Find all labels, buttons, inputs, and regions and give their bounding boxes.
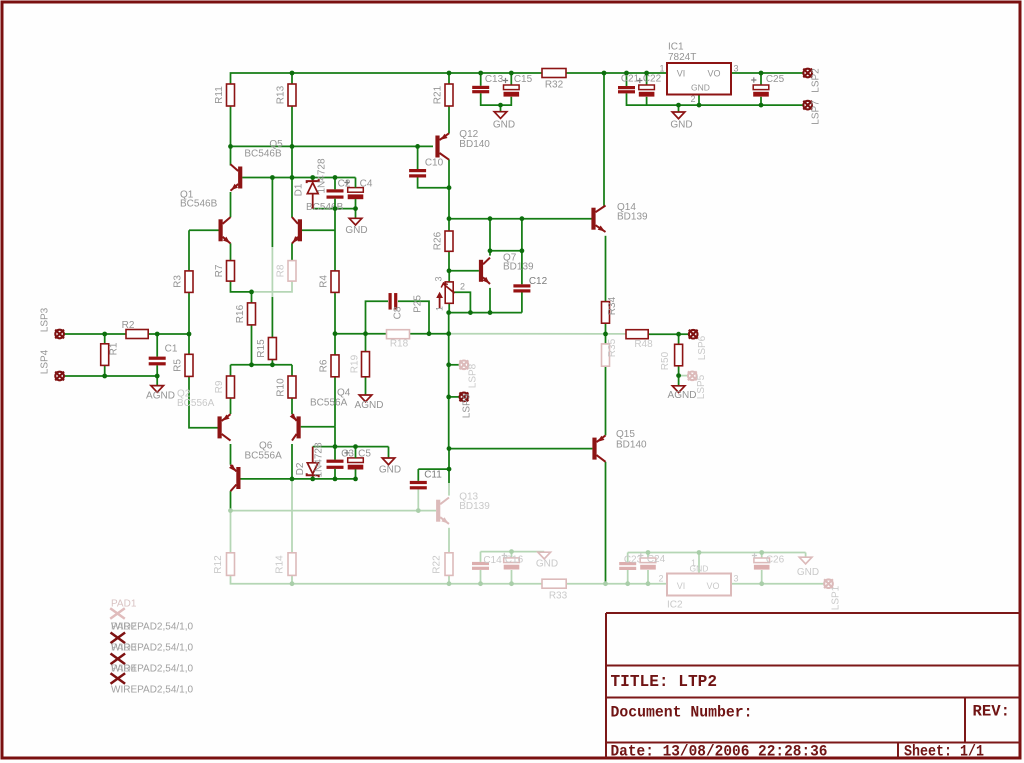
svg-text:VI: VI xyxy=(677,581,686,591)
wire Q4 base node to C3 bus xyxy=(334,427,336,447)
svg-text:LSP8: LSP8 xyxy=(468,363,479,388)
wire C14 top stub faded xyxy=(480,552,482,562)
svg-text:C8: C8 xyxy=(393,306,404,319)
svg-text:GND: GND xyxy=(691,83,710,93)
resistor R8 xyxy=(288,261,296,282)
svg-text:LSP3: LSP3 xyxy=(40,307,51,332)
junction xyxy=(447,446,452,451)
svg-text:1N4728: 1N4728 xyxy=(317,158,328,193)
svg-text:IC1: IC1 xyxy=(668,42,684,53)
junction xyxy=(446,331,451,336)
junction faded xyxy=(228,508,233,513)
wire R26 bottom to node xyxy=(448,251,450,270)
resistor R5 xyxy=(185,354,193,376)
svg-text:2: 2 xyxy=(460,282,465,292)
wire R6 bottom to Q4 base xyxy=(334,377,336,427)
junction xyxy=(290,175,295,180)
capacitor C14 xyxy=(472,562,489,570)
junction xyxy=(155,332,160,337)
svg-text:GND: GND xyxy=(379,465,401,476)
wire V+ top rail left of R32 xyxy=(231,73,543,84)
junction xyxy=(187,332,192,337)
svg-text:R35: R35 xyxy=(607,338,618,357)
svg-text:IC2: IC2 xyxy=(667,600,683,611)
junction xyxy=(333,175,338,180)
wire C5 top stub xyxy=(355,447,357,458)
wire Q5 base bus to D1/C2/C4 xyxy=(242,177,355,179)
junction xyxy=(676,373,681,378)
junction xyxy=(488,216,493,221)
wire R9 bottom to Q2 emitter xyxy=(230,398,232,414)
svg-text:R2: R2 xyxy=(122,320,135,331)
svg-text:C26: C26 xyxy=(766,555,785,566)
svg-text:BC556A: BC556A xyxy=(310,398,348,409)
junction xyxy=(447,268,452,273)
svg-text:R13: R13 xyxy=(276,85,287,104)
wire Q4 collector down xyxy=(291,444,293,479)
svg-text:VO: VO xyxy=(707,69,720,79)
wire tail bus R9/R10 xyxy=(231,364,293,366)
svg-text:3: 3 xyxy=(434,276,444,281)
transistor Q5 BC546B xyxy=(231,164,243,190)
svg-text:BC546B: BC546B xyxy=(180,199,218,210)
svg-text:R7: R7 xyxy=(214,264,225,277)
capacitor C23 xyxy=(619,562,636,570)
capacitor C3 xyxy=(327,460,344,469)
title block frame xyxy=(606,613,1021,758)
wirepad PAD1 xyxy=(110,608,125,619)
junction faded xyxy=(603,581,608,586)
wire C26 bottom stub faded xyxy=(761,570,763,584)
svg-text:BC546B: BC546B xyxy=(244,149,282,160)
wire IC2 VO to LSP1 faded xyxy=(731,583,824,585)
wire feedback bus left part xyxy=(335,333,449,335)
wire Q1 emitter to R7 xyxy=(230,243,232,260)
capacitor C16 electrolytic xyxy=(502,553,520,570)
svg-text:1: 1 xyxy=(659,64,664,74)
svg-text:R34: R34 xyxy=(607,296,618,315)
svg-text:VI: VI xyxy=(677,69,686,79)
wire R11 bottom to Q5 collector xyxy=(230,106,232,166)
wire R21 top stub xyxy=(448,73,450,84)
svg-text:WIREPAD2,54/1,0: WIREPAD2,54/1,0 xyxy=(111,622,194,633)
junction xyxy=(468,310,473,315)
svg-text:R50: R50 xyxy=(660,351,671,370)
svg-text:C15: C15 xyxy=(514,74,533,85)
wire P25 wiper pin2 xyxy=(453,292,470,312)
wire R10 bottom to Q4 emitter xyxy=(291,398,293,414)
junction xyxy=(509,71,514,76)
wire Q12 collector down to R26 xyxy=(448,160,450,232)
svg-text:AGND: AGND xyxy=(668,390,697,401)
wire C22 bottom stub xyxy=(646,97,648,105)
junction faded xyxy=(478,581,483,586)
wire R5 bottom to Q2 base xyxy=(189,376,218,427)
wire LSP8 stub xyxy=(449,364,460,366)
wire C16 top stub faded xyxy=(511,552,513,558)
wire R34 to R35 xyxy=(605,323,607,344)
svg-text:R10: R10 xyxy=(276,378,287,397)
wire C1 bottom to AGND xyxy=(156,365,158,385)
analog ground AGND right xyxy=(672,386,685,393)
junction xyxy=(520,248,525,253)
ground GND mid xyxy=(349,218,362,225)
svg-text:3: 3 xyxy=(734,574,739,584)
junction faded xyxy=(290,581,295,586)
svg-text:2: 2 xyxy=(690,94,695,104)
junction xyxy=(155,374,160,379)
junction xyxy=(353,206,358,211)
pad LSP7 xyxy=(803,101,812,110)
wire Q7 collector up xyxy=(489,219,491,256)
svg-text:REV:: REV: xyxy=(973,703,1011,721)
wire C24 bottom stub faded xyxy=(647,570,649,584)
wire Q13 emitter to R22 faded xyxy=(448,528,450,553)
wire R50 bottom stub xyxy=(678,366,680,376)
transistor Q3 BC546B xyxy=(292,217,302,243)
junction xyxy=(447,467,452,472)
svg-text:1: 1 xyxy=(435,306,445,311)
wire output node to R48 faded xyxy=(606,333,627,335)
resistor R19 xyxy=(362,352,370,377)
voltage regulator IC2 7924T faded xyxy=(667,574,731,596)
pad LSP4 xyxy=(55,372,64,381)
wire C26 top stub faded xyxy=(761,553,763,559)
svg-text:C14: C14 xyxy=(483,555,502,566)
wire Q15 base bus xyxy=(449,448,592,450)
junction xyxy=(290,144,295,149)
resistor R7 xyxy=(227,261,235,282)
wire C4 bottom stub xyxy=(355,199,357,209)
junction xyxy=(603,332,608,337)
junction xyxy=(697,103,702,108)
capacitor C8 xyxy=(389,293,398,310)
junction xyxy=(102,374,107,379)
svg-text:R1: R1 xyxy=(109,342,120,355)
junction xyxy=(488,310,493,315)
junction xyxy=(415,144,420,149)
svg-text:GND: GND xyxy=(493,120,515,131)
svg-text:R16: R16 xyxy=(235,304,246,323)
svg-text:C21: C21 xyxy=(621,74,640,85)
capacitor C2 xyxy=(327,189,344,198)
resistor R2 xyxy=(126,330,148,339)
wire Q14 emitter to R34 xyxy=(605,236,607,302)
capacitor C26 electrolytic xyxy=(752,553,770,570)
wire R9 top stub xyxy=(230,365,232,376)
svg-text:LSP4: LSP4 xyxy=(40,349,51,374)
svg-text:R12: R12 xyxy=(213,555,224,574)
wire Q15 collector to bottom rail xyxy=(605,462,607,584)
resistor R6 xyxy=(331,355,339,377)
junction xyxy=(353,477,358,482)
junction faded xyxy=(416,508,421,513)
svg-text:R9: R9 xyxy=(214,380,225,393)
svg-text:Document Number:: Document Number: xyxy=(611,704,753,722)
capacitor C11 xyxy=(410,481,427,490)
ground GND bottom right faded xyxy=(799,557,812,564)
wire V+ rail down to Q14 collector xyxy=(603,73,605,206)
wire AGND stub right xyxy=(678,376,680,386)
svg-text:D2: D2 xyxy=(295,462,306,475)
wire C2 bottom stub xyxy=(334,199,336,209)
junction faded xyxy=(646,550,651,555)
transistor Q1 BC546B xyxy=(219,217,231,243)
svg-text:R26: R26 xyxy=(433,231,444,250)
wire R7 emitter to bus xyxy=(231,281,252,292)
junction faded xyxy=(509,549,514,554)
junction xyxy=(333,206,338,211)
resistor R10 xyxy=(288,376,296,398)
transistor Q7 BD139 xyxy=(479,258,490,284)
pad LSP8 xyxy=(460,360,469,369)
wire GND stub under C13/C15 xyxy=(500,105,502,112)
transistor Q2 BC556A xyxy=(218,414,231,440)
wire to Q13 collector faded xyxy=(448,483,450,496)
svg-text:R8: R8 xyxy=(276,264,287,277)
wire C13/C15 bottoms to GND xyxy=(481,93,512,105)
wire LSP9 stub xyxy=(449,396,460,398)
junction faded xyxy=(759,550,764,555)
svg-text:GND: GND xyxy=(670,120,692,131)
svg-text:LSP9: LSP9 xyxy=(462,393,473,418)
svg-text:LSP7: LSP7 xyxy=(811,100,822,125)
svg-text:GND: GND xyxy=(536,559,558,570)
junction xyxy=(249,362,254,367)
wire Q13 base bus faded xyxy=(231,510,437,512)
capacitor C15 electrolytic xyxy=(503,78,519,97)
svg-text:C13: C13 xyxy=(485,74,504,85)
ground GND under IC1 xyxy=(672,112,685,119)
junction xyxy=(488,248,493,253)
wire P25 pin3 stub xyxy=(448,271,450,282)
wire C22 top stub xyxy=(646,73,648,85)
wire GND stub lower mid xyxy=(388,447,390,458)
junction xyxy=(310,477,315,482)
svg-text:R19: R19 xyxy=(350,354,361,373)
wire faded section of R15 column xyxy=(271,247,273,297)
wire C21 top stub xyxy=(626,73,628,86)
svg-text:C16: C16 xyxy=(505,555,524,566)
junction xyxy=(520,216,525,221)
wire R19 top stub xyxy=(365,334,367,352)
junction faded xyxy=(509,581,514,586)
svg-text:WIREPAD2,54/1,0: WIREPAD2,54/1,0 xyxy=(111,685,194,696)
wire R10 top stub xyxy=(291,365,293,376)
svg-text:R32: R32 xyxy=(545,80,564,91)
svg-text:AGND: AGND xyxy=(146,391,175,402)
wire C3 top stub xyxy=(334,447,336,460)
wire P25 pin1 stub xyxy=(448,303,450,312)
resistor R1 xyxy=(101,344,109,366)
svg-text:Date: 13/08/2006 22:28:36: Date: 13/08/2006 22:28:36 xyxy=(611,743,828,761)
pad LSP1 xyxy=(824,579,833,588)
svg-text:BD140: BD140 xyxy=(616,440,647,451)
svg-text:LSP2: LSP2 xyxy=(811,68,822,93)
wire IC1 VO to C25 and LSP2 xyxy=(731,72,803,74)
capacitor C12 xyxy=(513,284,530,292)
junction faded xyxy=(447,581,452,586)
svg-text:C25: C25 xyxy=(766,74,785,85)
wire node B1 to Q12 base xyxy=(231,145,434,147)
svg-text:2: 2 xyxy=(658,574,663,584)
wire R35 to Q15 emitter xyxy=(605,366,607,435)
capacitor C13 xyxy=(472,86,489,93)
svg-text:C5: C5 xyxy=(358,449,371,460)
wire C10 top stub xyxy=(417,146,419,169)
svg-text:WIREPAD2,54/1,0: WIREPAD2,54/1,0 xyxy=(111,643,194,654)
wire LSP6 stub xyxy=(679,333,689,335)
capacitor C21 xyxy=(618,86,635,93)
wire feedback bus faded middle xyxy=(449,333,606,335)
pad LSP6 xyxy=(689,330,698,339)
svg-text:R21: R21 xyxy=(433,85,444,104)
svg-text:BD139: BD139 xyxy=(459,501,490,512)
pad LSP3 xyxy=(55,330,64,339)
resistor R35 xyxy=(602,344,610,366)
svg-text:GND: GND xyxy=(345,225,367,236)
junction xyxy=(644,71,649,76)
wire R16 bottom to tail bus xyxy=(251,325,253,365)
wire R19 bottom to AGND xyxy=(365,377,367,395)
wire R16 top stub xyxy=(251,292,253,303)
wire Q1 base down to R3 xyxy=(188,230,190,271)
zener diode D1 1N4728 xyxy=(307,178,319,209)
wire Q4 base xyxy=(301,426,335,428)
analog ground AGND under C1 xyxy=(151,386,164,393)
junction xyxy=(249,290,254,295)
wire GND stub bottom right faded xyxy=(805,553,807,558)
transistor Q4 BC556A xyxy=(290,414,301,441)
wire C5 bottom stub xyxy=(355,469,357,479)
wire R22 bottom stub faded xyxy=(448,575,450,583)
wire Q7 emitter down xyxy=(489,288,491,313)
svg-text:P25: P25 xyxy=(413,295,424,313)
wire R2 to input node xyxy=(148,333,189,335)
junction xyxy=(363,331,368,336)
wire down toward Q13 xyxy=(448,469,450,483)
wire R50 top stub xyxy=(678,334,680,344)
resistor R12 xyxy=(227,553,235,576)
wire bottom rail to IC2 VI faded xyxy=(566,583,667,585)
wire C12 bottom leg xyxy=(521,293,523,313)
junction xyxy=(498,103,503,108)
svg-text:WIREPAD2,54/1,0: WIREPAD2,54/1,0 xyxy=(111,664,194,675)
wire R13 top stub xyxy=(291,73,293,84)
wire R13 bottom down to Q3 collector xyxy=(291,106,293,218)
svg-text:R48: R48 xyxy=(634,339,653,350)
wire C2 top stub xyxy=(334,178,336,190)
svg-text:Q15: Q15 xyxy=(616,429,635,440)
transistor Q13 BD139 xyxy=(436,498,449,524)
svg-text:1N4728: 1N4728 xyxy=(314,442,325,477)
junction xyxy=(447,71,452,76)
svg-text:R22: R22 xyxy=(432,555,443,574)
svg-text:C4: C4 xyxy=(360,179,373,190)
resistor R50 xyxy=(675,344,683,366)
resistor R21 xyxy=(445,84,453,106)
svg-text:BD140: BD140 xyxy=(459,139,490,150)
wire R48 to LSP6 node xyxy=(648,333,678,335)
wirepad PAD4 xyxy=(111,673,126,684)
resistor R22 xyxy=(445,553,453,576)
junction xyxy=(270,362,275,367)
svg-text:R14: R14 xyxy=(275,555,286,574)
resistor R48 xyxy=(626,330,648,339)
junction xyxy=(446,362,451,367)
wire stub xyxy=(605,72,607,74)
junction xyxy=(759,103,764,108)
junction xyxy=(676,103,681,108)
junction xyxy=(333,477,338,482)
capacitor C25 electrolytic xyxy=(751,77,769,96)
wire bus to R8 faded xyxy=(252,281,293,292)
wire GND stub mid xyxy=(355,209,357,219)
junction xyxy=(478,71,483,76)
wire C10 bottom to Q12 collector node xyxy=(418,178,449,188)
junction xyxy=(624,71,629,76)
wire C23 top stub faded xyxy=(627,553,629,563)
wire Q3 base xyxy=(302,229,335,231)
wire Q7 emitter bus xyxy=(449,312,522,314)
wire bottom rail left of R33 faded xyxy=(231,575,543,583)
junction faded xyxy=(625,581,630,586)
ground GND lower mid xyxy=(382,458,395,465)
wire Q1 base xyxy=(189,229,219,231)
resistor R32 xyxy=(542,69,566,78)
junction xyxy=(310,175,315,180)
wire Q6 collector to R12 faded xyxy=(230,511,232,553)
resistor R14 xyxy=(288,553,296,576)
wire Q3 base node down to R4 xyxy=(334,209,336,271)
junction xyxy=(447,216,452,221)
resistor R34 xyxy=(602,302,610,324)
svg-text:VO: VO xyxy=(706,581,719,591)
transistor Q15 BD140 xyxy=(592,435,605,461)
wire Q3 emitter to R8 xyxy=(291,243,293,260)
capacitor C5 electrolytic xyxy=(344,450,363,469)
wire down to R15 top xyxy=(271,297,273,338)
svg-text:R15: R15 xyxy=(256,339,267,358)
resistor R26 xyxy=(445,231,453,251)
wire output feedback column xyxy=(448,313,450,449)
resistor R16 xyxy=(248,303,256,325)
svg-text:GND: GND xyxy=(797,567,819,578)
resistor R13 xyxy=(288,84,296,106)
wire Q7 collector to C12 link xyxy=(490,250,522,252)
svg-text:C24: C24 xyxy=(647,554,666,565)
junction xyxy=(446,310,451,315)
svg-text:C10: C10 xyxy=(425,158,444,169)
junction xyxy=(353,444,358,449)
resistor R15 xyxy=(268,338,276,360)
svg-text:R6: R6 xyxy=(319,359,330,372)
svg-text:R5: R5 xyxy=(173,359,184,372)
junction xyxy=(447,185,452,190)
svg-text:TITLE: LTP2: TITLE: LTP2 xyxy=(611,673,718,692)
wire Q6 base bus to D2/C3/C5 xyxy=(241,478,356,480)
svg-text:3: 3 xyxy=(734,64,739,74)
junction xyxy=(759,71,764,76)
wire C11 top link xyxy=(418,468,449,470)
junction xyxy=(228,144,233,149)
wire R1 top stub xyxy=(104,334,106,344)
pad LSP9 xyxy=(460,393,469,402)
wire C23/C24/C26 top bus faded xyxy=(628,552,806,554)
svg-text:C1: C1 xyxy=(165,344,178,355)
wirepad PAD2 xyxy=(111,633,126,644)
wire C15 top stub xyxy=(510,73,512,85)
